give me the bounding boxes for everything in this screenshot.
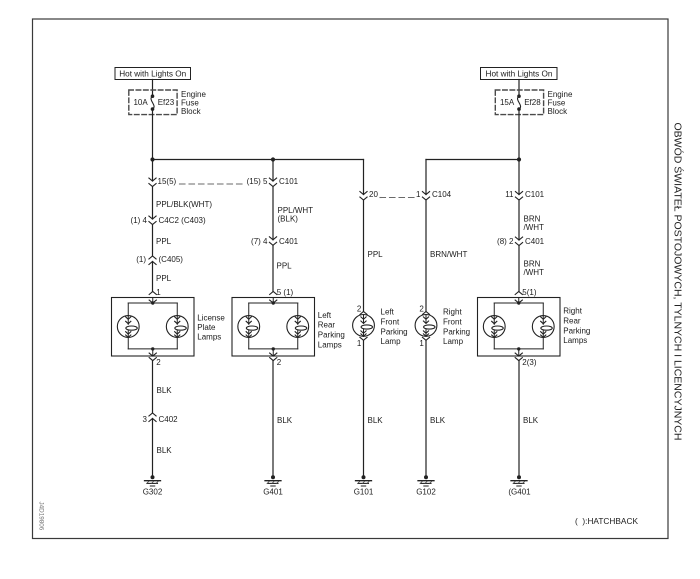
svg-text:OBWÓD ŚWIATEŁ POSTOJOWYCH, TYL: OBWÓD ŚWIATEŁ POSTOJOWYCH, TYLNYCH I LIC… xyxy=(672,123,685,441)
dashed tie line of connector C104 (row B) xyxy=(380,197,415,199)
svg-text:Lamps: Lamps xyxy=(563,336,587,345)
svg-text:Parking: Parking xyxy=(563,326,590,335)
ground G102 xyxy=(416,475,436,496)
svg-text:PPL: PPL xyxy=(156,274,172,283)
svg-text:(7) 4: (7) 4 xyxy=(251,237,268,246)
ground G302 xyxy=(143,475,163,496)
svg-text:(BLK): (BLK) xyxy=(278,214,299,223)
svg-text:15A: 15A xyxy=(500,98,515,107)
svg-text:Hot with Lights On: Hot with Lights On xyxy=(119,70,186,79)
svg-text:Parking: Parking xyxy=(443,327,470,336)
lamp assembly: License Plate Lamps (pins 1 / 2) xyxy=(112,288,226,367)
wire BLK: left rear lamps to ground G401 xyxy=(273,361,293,477)
label: Engine Fuse Block (left) xyxy=(181,90,206,116)
lamp assembly: Left Rear Parking Lamps (pins 5(1) / 2) xyxy=(232,288,345,367)
connector C104 pin 1 on right front lamp feed xyxy=(416,190,452,200)
wire BLK: left front lamp to ground G101 xyxy=(364,340,384,476)
connector C401 pin (7)4 xyxy=(251,237,299,246)
wire PPL/WHT(BLK): C101 to C401 xyxy=(273,187,313,240)
svg-text:2: 2 xyxy=(357,305,362,314)
svg-text:(15) 5: (15) 5 xyxy=(247,177,268,186)
dashed tie line of connector C101 (row A) xyxy=(180,183,244,185)
svg-text:(1) 4: (1) 4 xyxy=(131,216,148,225)
svg-text:C101: C101 xyxy=(279,177,299,186)
wire: bus down to connector C101 pin (15)5 xyxy=(272,160,274,182)
svg-text:J4D19806: J4D19806 xyxy=(38,502,45,531)
svg-text:G101: G101 xyxy=(354,488,374,497)
svg-text:Rear: Rear xyxy=(318,321,336,330)
svg-text:20: 20 xyxy=(369,190,378,199)
svg-text:C401: C401 xyxy=(525,237,545,246)
svg-text:G102: G102 xyxy=(416,488,436,497)
connector C401 pin (8)2 xyxy=(497,237,545,246)
svg-text:BLK: BLK xyxy=(523,416,539,425)
wire: right power label to fuse Ef28 xyxy=(518,80,520,97)
svg-text:C401: C401 xyxy=(279,237,299,246)
left bus wire: from fuse Ef23 node across to left front lamp branch xyxy=(153,160,364,195)
wire BRN/WHT: C401 to right rear lamps pin 5(1) xyxy=(519,246,544,292)
svg-text:BLK: BLK xyxy=(157,446,173,455)
svg-text:C101: C101 xyxy=(525,190,545,199)
ground G401 (left rear) xyxy=(263,475,283,496)
power label: Hot with Lights On (right) xyxy=(481,68,558,80)
svg-text:Ef23: Ef23 xyxy=(158,98,175,107)
connector C101 pin 15(5) on license lamp feed xyxy=(149,177,177,187)
svg-text:Parking: Parking xyxy=(318,331,345,340)
wire: fuse Ef23 down to left bus xyxy=(152,109,154,159)
svg-text:Lamp: Lamp xyxy=(381,337,402,346)
svg-text:3: 3 xyxy=(143,415,148,424)
svg-text:BLK: BLK xyxy=(368,416,384,425)
connector C402 pin 3 xyxy=(143,413,179,424)
svg-text:10A: 10A xyxy=(133,98,148,107)
ground G101 xyxy=(354,475,374,496)
junction node at left rear branch / bus xyxy=(271,157,275,161)
svg-text:Rear: Rear xyxy=(563,316,581,325)
svg-text:( ):HATCHBACK: ( ):HATCHBACK xyxy=(575,516,638,526)
svg-text:2(3): 2(3) xyxy=(522,358,537,367)
drawing code J4D19806 (vertical, bottom-left) xyxy=(38,502,45,531)
svg-text:1: 1 xyxy=(357,339,362,348)
wire BLK: license lamps pin 2 to C402 xyxy=(153,361,173,413)
svg-text:BLK: BLK xyxy=(430,416,446,425)
wire BRN/WHT: C104 pin 1 to right front lamp pin 2 xyxy=(419,200,467,314)
fuse Ef23 10A in Engine Fuse Block (dashed box) xyxy=(129,90,177,115)
connector C101 pin (15)5 on left rear lamp feed xyxy=(247,177,299,187)
svg-text:Front: Front xyxy=(381,317,400,326)
svg-text:Hot with Lights On: Hot with Lights On xyxy=(486,70,553,79)
svg-text:Lamps: Lamps xyxy=(197,332,221,341)
connector C101 pin 11 on right rear lamp feed xyxy=(505,190,544,200)
power label: Hot with Lights On (left) xyxy=(115,68,191,80)
ground (G401) right rear xyxy=(508,475,531,496)
svg-text:Parking: Parking xyxy=(381,327,408,336)
svg-text:11: 11 xyxy=(505,190,514,199)
wire BRN/WHT: C101 pin 11 to C401 xyxy=(519,200,544,240)
svg-text:(8) 2: (8) 2 xyxy=(497,237,514,246)
wire: left power label to fuse Ef23 xyxy=(152,80,154,97)
wire PPL: C401 to left rear lamps pin 5(1) xyxy=(273,245,292,291)
svg-text:Plate: Plate xyxy=(197,323,216,332)
svg-text:2: 2 xyxy=(277,358,282,367)
svg-text:G401: G401 xyxy=(263,488,283,497)
svg-text:(C405): (C405) xyxy=(159,255,184,264)
svg-text:2: 2 xyxy=(419,305,424,314)
svg-text:1: 1 xyxy=(156,288,161,297)
lamp: Left Front Parking Lamp (pins 2 / 1) xyxy=(353,308,408,349)
svg-text:Left: Left xyxy=(381,308,395,317)
junction node at fuse Ef23 / bus xyxy=(150,157,154,161)
wire: bus down to connector C101 pin 15(5) xyxy=(152,160,154,182)
svg-text:C4C2 (C403): C4C2 (C403) xyxy=(159,216,206,225)
svg-text:15(5): 15(5) xyxy=(158,177,177,186)
wire PPL: C104 pin 20 to left front lamp pin 2 xyxy=(357,200,383,314)
svg-text:(G401: (G401 xyxy=(508,488,531,497)
note: ( ):HATCHBACK xyxy=(575,516,638,526)
svg-text:C104: C104 xyxy=(432,190,452,199)
wire BLK: right rear lamps to ground G401 xyxy=(519,361,539,477)
svg-text:/WHT: /WHT xyxy=(524,223,545,232)
wire BLK: C402 to ground G302 xyxy=(153,419,173,477)
svg-text:Lamp: Lamp xyxy=(443,337,464,346)
svg-text:Right: Right xyxy=(563,307,582,316)
wire: bus down to connector C101 pin 11 xyxy=(518,160,520,195)
svg-text:C402: C402 xyxy=(159,415,179,424)
lamp: Right Front Parking Lamp (pins 2 / 1) xyxy=(415,308,470,349)
svg-text:Lamps: Lamps xyxy=(318,341,342,350)
wire: fuse Ef28 down to right bus xyxy=(518,109,520,159)
svg-text:BLK: BLK xyxy=(277,416,293,425)
diagram title (vertical, right margin): parking / tail / license lamps circuit xyxy=(672,123,685,441)
connector (C405) pin (1) xyxy=(136,255,183,264)
wire PPL/BLK(WHT): C101 to C4C2 xyxy=(153,187,213,220)
svg-text:BLK: BLK xyxy=(157,386,173,395)
svg-text:(1): (1) xyxy=(136,255,146,264)
svg-text:Right: Right xyxy=(443,308,462,317)
wire PPL: C405 to license plate lamps pin 1 xyxy=(153,262,172,292)
connector C4C2 (C403) pin (1)4 xyxy=(131,216,206,225)
svg-text:Block: Block xyxy=(181,107,202,116)
svg-text:/WHT: /WHT xyxy=(524,268,545,277)
fuse Ef28 15A in Engine Fuse Block (dashed box) xyxy=(495,90,543,115)
svg-text:Front: Front xyxy=(443,317,462,326)
svg-text:License: License xyxy=(197,314,225,323)
svg-text:1: 1 xyxy=(419,339,424,348)
svg-text:5(1): 5(1) xyxy=(522,288,537,297)
svg-text:Ef28: Ef28 xyxy=(524,98,541,107)
svg-text:2: 2 xyxy=(156,358,161,367)
svg-text:PPL: PPL xyxy=(368,250,384,259)
lamp assembly: Right Rear Parking Lamps (pins 5(1) / 2(3)) xyxy=(478,288,591,367)
svg-text:PPL: PPL xyxy=(156,237,172,246)
junction node at fuse Ef28 / bus xyxy=(517,157,521,161)
svg-text:PPL: PPL xyxy=(277,262,293,271)
svg-text:Block: Block xyxy=(548,107,569,116)
svg-text:BRN/WHT: BRN/WHT xyxy=(430,250,467,259)
wire BLK: right front lamp to ground G102 xyxy=(426,340,446,476)
label: Engine Fuse Block (right) xyxy=(548,90,573,116)
svg-text:1: 1 xyxy=(416,190,421,199)
right bus wire: from fuse Ef28 node across to right front lamp branch xyxy=(426,160,519,195)
svg-text:G302: G302 xyxy=(143,488,163,497)
svg-text:PPL/BLK(WHT): PPL/BLK(WHT) xyxy=(156,200,212,209)
wire PPL: C4C2 to C405 xyxy=(153,225,172,257)
connector C104 pin 20 on left front lamp feed xyxy=(360,190,379,200)
svg-text:5 (1): 5 (1) xyxy=(277,288,294,297)
svg-text:Left: Left xyxy=(318,311,332,320)
